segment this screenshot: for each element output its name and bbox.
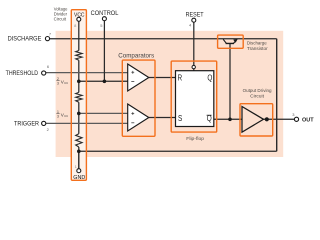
wire: package right edge (emitter to ground) [276,39,278,152]
terminal: CONTROL pin 5 [102,17,106,21]
svg-text:7: 7 [49,32,52,37]
resistor R1 [76,51,82,61]
wire: GND lead [78,151,80,168]
node: inverter output [265,117,269,121]
wire: CONTROL lead down [103,21,105,82]
box: discharge transistor [218,35,244,48]
svg-text:3: 3 [292,112,295,117]
svg-text:CC: CC [64,114,68,118]
svg-text:2: 2 [57,77,59,81]
box: comparators [122,60,155,136]
box: flip-flop outer [171,61,217,132]
svg-text:RESET: RESET [186,11,204,18]
transistor Q1 (discharge) [223,39,226,43]
wire: comparator 1 output to R [149,77,176,79]
svg-text:DISCHARGE: DISCHARGE [8,36,42,43]
node: base joins Qbar wire [228,118,232,122]
svg-text:Discharge: Discharge [247,40,267,45]
svg-text:VCC: VCC [74,13,85,19]
node: ground junction [77,150,81,154]
wire: inverter output to OUT pin [263,118,295,120]
svg-text:GND: GND [73,175,85,181]
svg-text:6: 6 [47,64,50,69]
wire: bottom ground rail [79,150,277,152]
label 2/3 Vcc [56,77,68,86]
wire: 1/3 Vcc node to comparator + [79,112,128,114]
svg-text:Transistor: Transistor [247,46,268,51]
svg-text:Flip-flop: Flip-flop [186,136,204,141]
terminal: DISCHARGE pin 7 [45,37,49,41]
svg-text:CC: CC [64,81,68,85]
svg-text:Comparators: Comparators [118,52,154,59]
svg-text:3: 3 [57,82,59,86]
label 1/3 Vcc [56,110,68,119]
svg-text:THRESHOLD: THRESHOLD [6,70,39,77]
svg-text:Circuit: Circuit [250,94,265,99]
wire: THRESHOLD to comparator + [46,72,128,74]
node: 2/3 Vcc divider junction [77,80,81,84]
wire: TRIGGER to comparator - [46,122,128,124]
wire: discharge transistor base lead [229,43,231,119]
svg-text:1: 1 [57,110,59,114]
svg-text:3: 3 [57,115,59,119]
wire: RESET lead down to flip-flop [193,22,195,70]
svg-text:5: 5 [100,23,103,28]
svg-text:R: R [178,73,183,82]
terminal: RESET pin 4 [192,18,196,22]
voltage divider box light interior [71,10,86,181]
node: CONTROL joins 2/3 Vcc [103,80,107,84]
svg-text:CONTROL: CONTROL [91,10,119,17]
svg-text:Q: Q [207,73,212,82]
wire: 2/3 Vcc node to comparator - (with CONTROL tap) [79,80,128,82]
svg-text:OUT: OUT [302,117,314,123]
svg-text:2: 2 [47,127,50,132]
wire: top rail / DISCHARGE to collector and right edge [50,38,277,40]
terminal: OUT pin 3 [294,117,298,121]
terminal: TRIGGER pin 2 [42,121,46,125]
resistor R3 [76,134,82,147]
svg-text:TRIGGER: TRIGGER [14,121,39,128]
terminal: THRESHOLD pin 6 [42,71,46,75]
inverter U3 (output driver) [242,107,264,133]
flip-flop box [176,71,214,127]
op-amp U2 (trigger comparator) [128,104,149,131]
svg-text:S: S [178,114,182,123]
op-amp U1 (threshold comparator) [128,64,149,91]
svg-text:4: 4 [189,23,192,28]
reset inversion bubble [192,65,195,68]
terminal: GND pin 1 [77,169,81,173]
box: output driving circuit [240,104,273,136]
svg-text:Output Driving: Output Driving [243,88,272,93]
wire: VCC lead and voltage divider chain [78,21,80,168]
wire: comparator 2 output to S [149,117,176,119]
resistor R2 [76,92,82,102]
svg-text:Circuit: Circuit [54,17,67,22]
node: 1/3 Vcc divider junction [77,112,81,116]
IC body shading [56,31,284,157]
wire: Qbar output to inverter [213,118,242,120]
box: voltage divider (VCC to GND) [71,10,86,181]
terminal: VCC pin 8 [77,17,81,21]
